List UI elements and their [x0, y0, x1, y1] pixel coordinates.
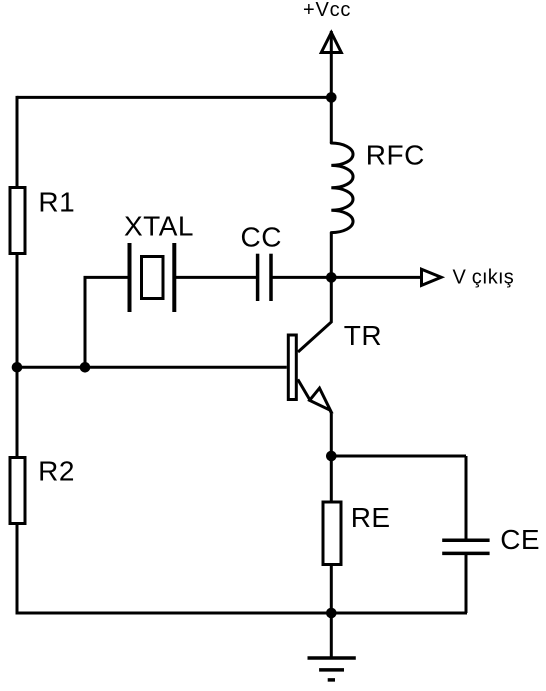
svg-text:+Vcc: +Vcc [303, 0, 351, 21]
svg-text:RFC: RFC [366, 140, 425, 171]
svg-text:R1: R1 [38, 187, 75, 218]
svg-text:V çıkış: V çıkış [453, 267, 514, 289]
svg-text:RE: RE [351, 502, 391, 533]
svg-text:TR: TR [344, 320, 382, 351]
svg-text:XTAL: XTAL [124, 211, 194, 242]
svg-text:CC: CC [241, 222, 282, 253]
svg-text:R2: R2 [38, 456, 75, 487]
svg-text:CE: CE [500, 524, 540, 555]
